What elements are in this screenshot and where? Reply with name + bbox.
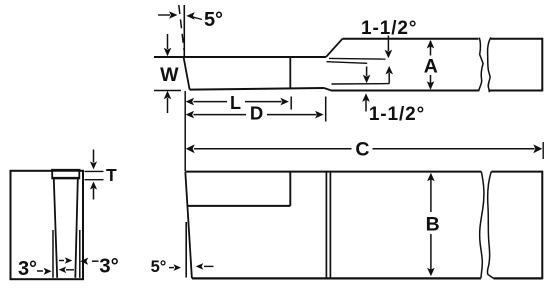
side view: right end edge	[541, 171, 543, 280]
dimension D: line right segment	[267, 114, 317, 116]
dimension W: down arrow shaft	[167, 34, 169, 49]
end view: inner upper arrowhead	[65, 257, 73, 264]
dimension C: right arrowhead	[533, 144, 542, 153]
3 deg left arrowhead	[44, 268, 52, 275]
dimension T: upper extension dash	[85, 170, 104, 172]
dimension A: lower shaft	[430, 75, 432, 89]
dimension A: upper arrowhead	[427, 40, 435, 49]
side view: weld line 2	[329, 172, 331, 277]
svg-text:W: W	[160, 64, 179, 86]
top view: right end edge	[541, 38, 543, 92]
svg-text:C: C	[355, 139, 369, 161]
dimension B: upper shaft	[430, 175, 432, 213]
top view: upper inner taper line U2	[327, 62, 368, 64]
end view: blade cap	[52, 170, 79, 178]
top 1-1/2 deg arrowhead	[385, 50, 393, 59]
side view: weld line 1	[325, 172, 327, 277]
5 deg top: dashed angle line	[179, 5, 184, 50]
dimension L: line right segment	[245, 101, 282, 103]
dimension T: up arrow shaft	[93, 188, 95, 200]
dimension D: line left segment	[194, 114, 247, 116]
dimension W: upper arrowhead	[164, 48, 172, 57]
5 deg top: leader from label	[190, 16, 202, 19]
3 deg right arrowhead	[80, 258, 88, 265]
svg-text:1-1/2°: 1-1/2°	[361, 18, 417, 39]
5 deg bottom: vertical reference line	[185, 222, 187, 278]
dimension C: right extension line	[542, 142, 544, 159]
dimension B: lower arrowhead	[427, 268, 435, 277]
end view: inner lower arrowhead	[59, 267, 66, 274]
dimension T: down arrow shaft	[93, 150, 95, 163]
top view: shank top edge right segment	[491, 38, 543, 40]
middle down arrow shaft	[366, 67, 368, 77]
dimension T: lower arrowhead	[90, 182, 97, 190]
side view: break squiggle left	[480, 172, 484, 279]
dimension L: left arrowhead	[186, 98, 195, 106]
end view: blade left slanted side	[54, 179, 57, 278]
top view: shank bottom edge left segment	[331, 90, 479, 92]
3 deg left: arrow shaft	[37, 270, 43, 272]
side view: top edge left segment	[185, 171, 481, 173]
svg-text:3°: 3°	[18, 258, 37, 280]
bottom 1-1/2 deg: up arrow shaft	[365, 100, 367, 112]
dimension L: line left segment	[194, 101, 228, 103]
top view: bottom shoulder step	[324, 88, 331, 90]
dimension A: lower arrowhead	[427, 81, 435, 90]
left main extension line	[184, 91, 186, 171]
dimension C: line right segment	[373, 148, 535, 150]
end view: left vertical reference line	[52, 230, 54, 278]
side view: bottom edge left segment	[192, 277, 481, 279]
dimension L: right extension tick	[290, 97, 292, 110]
dimension B: upper arrowhead	[427, 173, 435, 182]
top view: break squiggle left	[479, 38, 484, 92]
5 deg top: left arrowhead	[169, 11, 178, 19]
5 deg top: leader arrowhead	[186, 12, 195, 20]
bottom 1-1/2 deg arrowhead	[362, 93, 370, 102]
svg-text:D: D	[250, 103, 263, 124]
side view: slanted front edge	[185, 172, 192, 279]
top view: top shoulder slope	[326, 39, 343, 57]
side view: break squiggle right	[487, 172, 493, 279]
dimension A: upper shaft	[430, 41, 432, 56]
middle down arrowhead	[363, 75, 371, 84]
middle up arrowhead	[385, 66, 393, 75]
side view: blade step horizontal line	[188, 205, 291, 207]
5 deg bottom: right arrow shaft	[204, 265, 214, 267]
end view: inner lower arrow shaft	[66, 269, 74, 271]
svg-text:3°: 3°	[99, 255, 119, 278]
5 deg bottom: left arrowhead	[174, 264, 182, 271]
svg-text:T: T	[106, 165, 117, 185]
dimension T: lower extension dash	[85, 179, 104, 181]
top view: shank bottom edge right segment	[490, 90, 543, 92]
svg-text:B: B	[426, 214, 440, 236]
end view: inner upper arrow shaft	[59, 260, 64, 262]
dimension T: upper arrowhead	[90, 161, 97, 169]
end view: outer square shank	[11, 171, 84, 279]
dimension D: left arrowhead	[186, 111, 195, 119]
top 1-1/2 deg: down arrow shaft	[387, 36, 389, 52]
side view: bottom edge right segment	[493, 277, 542, 279]
dimension C: line left segment	[194, 148, 352, 150]
side view: top edge right segment	[491, 171, 542, 173]
dimension C: left arrowhead	[186, 144, 195, 153]
5 deg bottom: left leader	[169, 267, 174, 269]
dimension D: right extension line	[325, 97, 327, 122]
5 deg bottom: right arrowhead	[196, 263, 204, 270]
svg-text:5°: 5°	[151, 258, 167, 276]
svg-text:1-1/2°: 1-1/2°	[369, 104, 425, 125]
top view: lower inner taper line L1	[332, 83, 390, 85]
svg-text:A: A	[424, 56, 438, 78]
end view: blade cap thick top	[51, 169, 80, 172]
top view: nose top edge with W extension	[154, 56, 326, 58]
top view: vertical division line at L	[289, 57, 291, 89]
middle up arrow shaft	[388, 73, 390, 83]
dimension B: lower shaft	[430, 234, 432, 274]
dimension W: up arrow shaft	[167, 98, 169, 113]
end view: blade right slanted side	[75, 179, 78, 278]
top view: nose tip slanted edge	[183, 56, 189, 89]
end view: right vertical reference line	[79, 230, 81, 278]
dimension D: right arrowhead	[315, 111, 324, 119]
5 deg top: left arrow shaft	[158, 14, 170, 16]
end view: blade cap thick bottom	[52, 177, 79, 179]
dimension L: right arrowhead	[280, 98, 289, 106]
5 deg top: vertical reference line	[183, 5, 185, 56]
dimension W: lower arrowhead	[164, 91, 172, 100]
top view: nose bottom edge	[190, 88, 324, 90]
top view: shank top edge left segment	[343, 38, 479, 40]
svg-text:L: L	[230, 93, 241, 113]
top view: break squiggle right	[488, 37, 491, 92]
3 deg right: arrow shaft	[92, 260, 99, 262]
svg-text:5°: 5°	[204, 9, 223, 31]
dimension W: lower extension line	[154, 90, 181, 92]
top view: upper inner taper line U1	[329, 57, 386, 60]
side view: blade step vertical line	[289, 172, 291, 206]
